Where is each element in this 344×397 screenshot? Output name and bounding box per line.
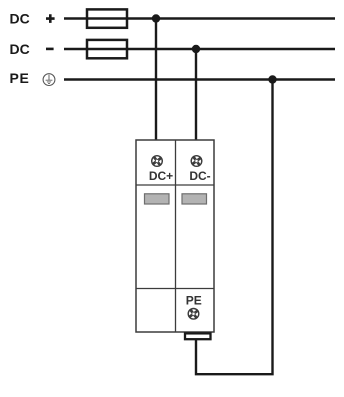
terminal screw DC- [191, 156, 202, 167]
wire drop DC+ to device [155, 19, 157, 142]
svg-text:PE: PE [10, 70, 30, 86]
status window module 1 [145, 194, 170, 204]
junction dot PE [268, 75, 276, 83]
junction dot DC- [192, 45, 200, 53]
wire drop DC- to device [195, 49, 197, 141]
wire PE return (tab to PE line) [196, 80, 273, 375]
wire DC+ horizontal [64, 17, 335, 19]
svg-text:DC: DC [10, 11, 30, 27]
earth symbol (circled ground) [43, 74, 55, 86]
device top section divider [136, 184, 214, 186]
terminal screw DC+ [152, 156, 163, 167]
junction dot DC+ [152, 14, 160, 22]
label DC+ net [10, 11, 55, 27]
device middle divider [175, 140, 177, 332]
status window module 2 [182, 194, 207, 204]
svg-text:DC+: DC+ [149, 169, 173, 183]
wire DC- horizontal [64, 48, 335, 50]
terminal screw PE [188, 309, 199, 320]
PE terminal tab [185, 333, 211, 339]
svg-text:PE: PE [186, 293, 202, 307]
fuse F1 (DC+) [87, 9, 127, 27]
label DC- net [10, 41, 54, 57]
device bottom section divider [136, 288, 214, 290]
fuse F2 (DC-) [87, 40, 127, 58]
svg-text:DC: DC [10, 41, 30, 57]
wire PE horizontal [64, 78, 335, 80]
surge protective device body [136, 140, 214, 332]
svg-text:DC-: DC- [189, 169, 210, 183]
